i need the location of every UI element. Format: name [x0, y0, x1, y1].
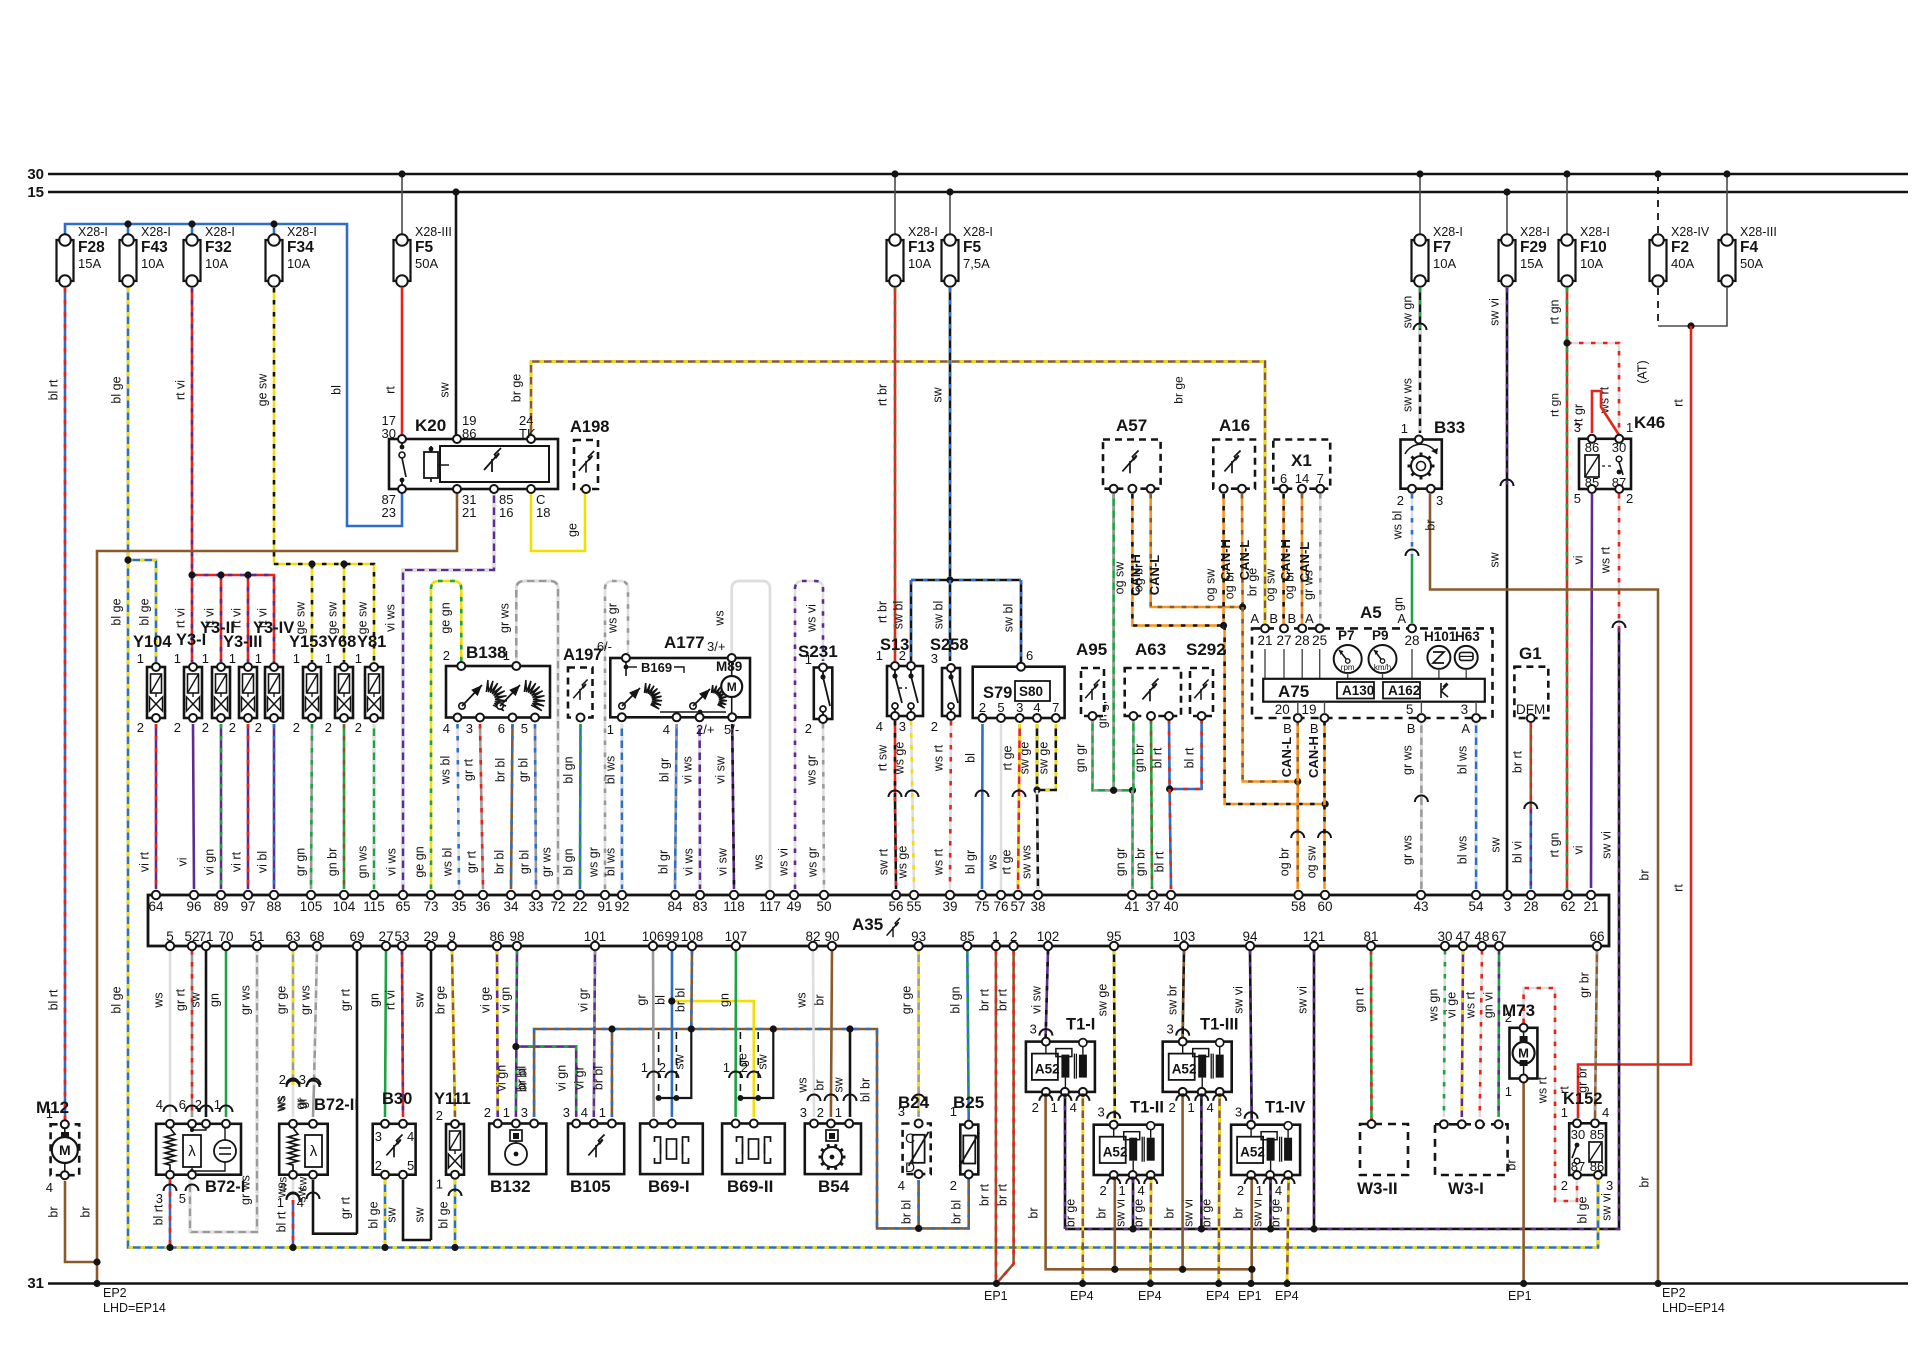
- svg-text:10A: 10A: [141, 256, 164, 271]
- wire vi gn A35-98 to B132-1 and B105-3: [516, 950, 517, 1117]
- svg-text:115: 115: [363, 899, 385, 914]
- svg-text:2: 2: [443, 648, 450, 663]
- wire gr ge A35-93 to B24-3: [917, 950, 920, 1117]
- svg-text:sw: sw: [673, 1053, 687, 1069]
- svg-text:10A: 10A: [205, 256, 228, 271]
- svg-text:1: 1: [503, 1105, 510, 1120]
- svg-text:2: 2: [931, 719, 938, 734]
- svg-text:og br: og br: [1283, 571, 1297, 600]
- svg-text:vi ge: vi ge: [479, 987, 493, 1013]
- svg-text:64: 64: [148, 899, 164, 914]
- svg-text:60: 60: [1317, 899, 1332, 914]
- svg-text:F32: F32: [205, 239, 232, 256]
- svg-text:1: 1: [277, 1195, 284, 1210]
- svg-text:bl rt: bl rt: [1153, 851, 1167, 872]
- fuse F5: [942, 240, 959, 281]
- svg-text:sw vi: sw vi: [1296, 986, 1310, 1014]
- svg-text:14: 14: [1295, 471, 1309, 486]
- svg-text:M: M: [1518, 1046, 1529, 1061]
- svg-text:3: 3: [1606, 1178, 1613, 1193]
- svg-text:bl ge: bl ge: [110, 598, 124, 625]
- svg-text:rt gn: rt gn: [1548, 393, 1562, 417]
- svg-text:4: 4: [581, 1105, 588, 1120]
- svg-text:rt ge: rt ge: [1000, 849, 1014, 874]
- bus 31 ground line: [48, 1282, 1908, 1284]
- svg-text:A52: A52: [1035, 1062, 1060, 1077]
- svg-text:vi gn: vi gn: [555, 1065, 569, 1091]
- svg-text:vi: vi: [1572, 845, 1586, 854]
- relay K20: [389, 439, 558, 489]
- svg-text:1: 1: [1187, 1100, 1194, 1115]
- svg-text:5: 5: [1406, 702, 1414, 717]
- wire vi K46-85 to A35-21: [1591, 494, 1592, 888]
- svg-text:6: 6: [1026, 648, 1033, 663]
- wire gr ws hairpin B138-1 to A35-72: [516, 581, 558, 889]
- svg-text:A57: A57: [1116, 416, 1147, 435]
- wire vi sw A177-5 to A35-118: [732, 724, 734, 889]
- svg-text:gn br: gn br: [1134, 848, 1148, 877]
- svg-text:53: 53: [394, 929, 409, 944]
- svg-text:1: 1: [174, 651, 181, 666]
- wire gn vi A35-67 to W3-I: [1497, 950, 1500, 1117]
- svg-text:85: 85: [1590, 1127, 1604, 1142]
- svg-text:117: 117: [759, 899, 781, 914]
- svg-text:EP4: EP4: [1275, 1289, 1299, 1303]
- svg-text:ws ge: ws ge: [896, 846, 910, 880]
- svg-text:gn vi: gn vi: [1482, 992, 1496, 1018]
- svg-text:gr rt: gr rt: [339, 988, 353, 1011]
- svg-text:3: 3: [1436, 493, 1443, 508]
- wire bl ws A177-1 to A35-92: [620, 724, 623, 889]
- svg-text:72: 72: [550, 899, 565, 914]
- svg-text:A: A: [1250, 611, 1259, 626]
- svg-text:gr ws: gr ws: [540, 847, 554, 877]
- svg-text:bl ge: bl ge: [138, 598, 152, 625]
- svg-text:rt: rt: [1672, 399, 1686, 407]
- svg-text:25: 25: [1312, 633, 1327, 648]
- svg-text:2: 2: [202, 720, 209, 735]
- svg-text:28: 28: [1523, 899, 1538, 914]
- wire gn ws Y81 to A35-115: [373, 724, 376, 889]
- svg-text:LHD=EP14: LHD=EP14: [103, 1301, 166, 1315]
- svg-text:ws: ws: [274, 1096, 288, 1112]
- connector strip A35: [148, 895, 1609, 946]
- svg-text:K20: K20: [415, 416, 446, 435]
- svg-text:62: 62: [1560, 899, 1575, 914]
- svg-text:37: 37: [1145, 899, 1160, 914]
- svg-text:2: 2: [375, 1158, 382, 1173]
- svg-text:ws gn: ws gn: [1427, 989, 1441, 1023]
- svg-text:54: 54: [1468, 899, 1484, 914]
- motor M73: [1510, 1028, 1538, 1079]
- svg-text:28: 28: [1404, 633, 1419, 648]
- svg-text:3: 3: [1166, 1022, 1173, 1037]
- svg-text:X28-I: X28-I: [1520, 225, 1550, 239]
- wire og br CAN-L A57: [1151, 494, 1243, 607]
- svg-text:ws vi: ws vi: [805, 604, 819, 633]
- wire ws gn A35-30 to W3-I: [1444, 950, 1445, 1117]
- svg-text:3: 3: [521, 1105, 528, 1120]
- svg-text:ws vi: ws vi: [777, 848, 791, 877]
- svg-text:1: 1: [137, 651, 144, 666]
- svg-text:W3-II: W3-II: [1357, 1179, 1398, 1198]
- svg-text:ws: ws: [795, 992, 809, 1008]
- svg-text:B72-II: B72-II: [314, 1096, 359, 1114]
- svg-text:br: br: [1424, 519, 1438, 530]
- svg-text:X28-IV: X28-IV: [1671, 225, 1710, 239]
- svg-text:ge gn: ge gn: [439, 602, 453, 633]
- svg-text:B169: B169: [641, 660, 672, 675]
- svg-text:6/-: 6/-: [597, 639, 612, 654]
- svg-text:31: 31: [27, 1275, 44, 1292]
- sensor A197: [568, 668, 593, 718]
- svg-text:B132: B132: [490, 1177, 531, 1196]
- svg-text:EP1: EP1: [1508, 1289, 1532, 1303]
- svg-text:gn ws: gn ws: [356, 846, 370, 879]
- svg-text:Y68: Y68: [327, 633, 356, 651]
- svg-text:ge sw: ge sw: [326, 601, 340, 635]
- svg-text:og sw: og sw: [1113, 561, 1127, 595]
- wire bl A35-99 to B69-I-2: [671, 950, 674, 1117]
- svg-text:106: 106: [642, 929, 665, 944]
- ignition coil T1-II: [1094, 1125, 1163, 1175]
- wire br ge K20-TK to A5-21: [531, 362, 1265, 624]
- svg-text:3: 3: [1504, 899, 1512, 914]
- svg-text:6: 6: [498, 721, 505, 736]
- svg-text:br ge: br ge: [1132, 1199, 1146, 1228]
- svg-text:23: 23: [382, 505, 396, 520]
- svg-text:50A: 50A: [1740, 256, 1763, 271]
- svg-text:vi gn: vi gn: [495, 1065, 509, 1091]
- svg-text:Y111: Y111: [434, 1090, 471, 1108]
- svg-text:1: 1: [436, 1177, 443, 1192]
- svg-text:15A: 15A: [1520, 256, 1543, 271]
- svg-text:104: 104: [333, 899, 356, 914]
- svg-text:F13: F13: [908, 239, 935, 256]
- svg-text:sw bl: sw bl: [932, 601, 946, 629]
- wire gn A35-70 to B72-I-1: [225, 950, 228, 1117]
- svg-text:ws: ws: [276, 1177, 290, 1193]
- svg-text:7: 7: [1052, 700, 1059, 715]
- module A57: [1103, 440, 1161, 489]
- svg-text:vi gn: vi gn: [499, 987, 513, 1013]
- svg-text:3: 3: [375, 1129, 382, 1144]
- wire br rt A35-2 to EP1: [996, 950, 1013, 1284]
- svg-text:5/-: 5/-: [724, 722, 739, 737]
- svg-text:B33: B33: [1434, 418, 1465, 437]
- svg-text:rt sw: rt sw: [876, 744, 890, 771]
- svg-text:br: br: [1638, 869, 1652, 880]
- svg-text:B72-I: B72-I: [205, 1178, 245, 1196]
- wire br T1 pin2 collector to EP1: [1046, 1094, 1252, 1284]
- svg-text:br: br: [79, 1206, 93, 1217]
- svg-text:30: 30: [27, 166, 44, 183]
- svg-text:63: 63: [285, 929, 300, 944]
- wire br M12-4 to bus31: [65, 1181, 97, 1262]
- svg-text:K152: K152: [1563, 1090, 1602, 1108]
- wire rt ge S79-3 to A35-57: [1018, 724, 1020, 889]
- svg-text:W3-I: W3-I: [1448, 1179, 1484, 1198]
- svg-text:86: 86: [489, 929, 504, 944]
- svg-text:ge sw: ge sw: [356, 601, 370, 635]
- throttle body B138: [446, 666, 550, 718]
- svg-text:sw: sw: [1488, 551, 1502, 567]
- fuse F4: [1719, 240, 1736, 281]
- svg-text:vi ge: vi ge: [1445, 992, 1459, 1018]
- wire bl ge Y111-1 to ground bus: [454, 1180, 457, 1248]
- wire F29 top to bus 15: [1506, 192, 1508, 234]
- svg-text:30: 30: [382, 426, 396, 441]
- svg-text:bl gr: bl gr: [657, 850, 671, 874]
- ignition coil T1-III: [1163, 1042, 1232, 1092]
- svg-text:bl gn: bl gn: [949, 986, 963, 1013]
- svg-text:vi: vi: [176, 857, 190, 866]
- svg-text:br: br: [1232, 1207, 1246, 1218]
- wire br M73-1 to EP1: [1522, 1081, 1525, 1284]
- svg-text:Y104: Y104: [133, 633, 172, 651]
- fuse F7: [1412, 240, 1429, 281]
- instrument module A75: [1263, 679, 1485, 702]
- wire bl gn A197 to A35-22: [579, 724, 582, 889]
- svg-text:5: 5: [179, 1191, 186, 1206]
- fuse F13: [887, 240, 904, 281]
- valve Y3-III: [239, 667, 257, 718]
- svg-text:H101: H101: [1424, 629, 1457, 644]
- svg-text:2: 2: [325, 720, 332, 735]
- wire og br CAN-L A16: [1241, 494, 1244, 607]
- wire br A35-90 to B54-2: [831, 950, 832, 1117]
- svg-text:CAN-L: CAN-L: [1279, 737, 1294, 777]
- gauge P9: [1369, 645, 1397, 673]
- valve Y104: [147, 667, 165, 718]
- sensor B30: [373, 1124, 416, 1175]
- motor M12: [51, 1124, 80, 1175]
- svg-text:5: 5: [166, 929, 174, 944]
- svg-text:rt vi: rt vi: [174, 608, 188, 628]
- svg-text:21: 21: [1583, 899, 1598, 914]
- svg-text:vi sw: vi sw: [1030, 985, 1044, 1014]
- wire ge branch to B69-II-2: [672, 1001, 754, 1117]
- svg-text:A52: A52: [1172, 1062, 1197, 1077]
- wire vi rt Y3-III to A35-97: [247, 724, 250, 889]
- svg-text:EP4: EP4: [1138, 1289, 1162, 1303]
- wire ws gr S231-2 to A35-50: [823, 724, 824, 889]
- svg-text:br bl: br bl: [494, 758, 508, 782]
- svg-text:A75: A75: [1278, 682, 1309, 701]
- ignition coil T1-IV: [1231, 1125, 1300, 1175]
- svg-text:br ge: br ge: [434, 986, 448, 1015]
- svg-text:58: 58: [1291, 899, 1306, 914]
- svg-text:2: 2: [741, 1060, 748, 1075]
- svg-text:B: B: [1407, 721, 1416, 736]
- svg-text:2: 2: [195, 1097, 202, 1112]
- svg-text:vi ws: vi ws: [385, 848, 399, 876]
- svg-text:λ: λ: [188, 1143, 196, 1160]
- svg-text:A130: A130: [1342, 683, 1374, 698]
- svg-text:3/+: 3/+: [707, 639, 725, 654]
- svg-text:gn: gn: [368, 993, 382, 1007]
- svg-text:1: 1: [1256, 1183, 1263, 1198]
- svg-text:G1: G1: [1519, 644, 1542, 663]
- fuse F34: [266, 240, 283, 281]
- svg-text:18: 18: [536, 505, 550, 520]
- wire ge K20-C/18 to A198: [531, 491, 585, 551]
- svg-text:br rt: br rt: [996, 988, 1010, 1011]
- svg-text:4: 4: [1206, 1100, 1213, 1115]
- svg-text:Y81: Y81: [357, 633, 386, 651]
- switch S13: [887, 666, 923, 716]
- svg-text:bl br: bl br: [859, 1078, 873, 1102]
- svg-text:39: 39: [942, 899, 957, 914]
- wire gn A35-107 to B69-II-1: [734, 950, 737, 1117]
- svg-text:vi gr: vi gr: [573, 1066, 587, 1090]
- svg-text:gr ws: gr ws: [1302, 570, 1316, 600]
- svg-text:B69-I: B69-I: [648, 1177, 690, 1196]
- sensor A63: [1125, 668, 1181, 716]
- wire vi bl Y3-IV to A35-88: [273, 724, 276, 889]
- svg-text:bl rt: bl rt: [152, 1204, 166, 1225]
- wire F4 top to bus 30: [1726, 174, 1728, 234]
- rotary sensor B33: [1401, 440, 1442, 489]
- temperature sensor B24: [903, 1124, 931, 1175]
- svg-text:ws rt: ws rt: [1464, 991, 1478, 1019]
- wire F2 top to bus 30 (dashed): [1657, 174, 1659, 234]
- svg-text:1: 1: [1626, 420, 1633, 435]
- svg-text:gr ws: gr ws: [299, 985, 313, 1015]
- svg-text:EP2: EP2: [1662, 1286, 1686, 1300]
- svg-text:43: 43: [1413, 899, 1428, 914]
- svg-text:ws bl: ws bl: [1391, 511, 1405, 540]
- svg-text:br rt: br rt: [996, 1183, 1010, 1206]
- svg-text:1: 1: [355, 651, 362, 666]
- svg-text:CAN-H: CAN-H: [1306, 736, 1321, 778]
- svg-text:bl ws: bl ws: [604, 848, 618, 876]
- svg-text:69: 69: [349, 929, 364, 944]
- svg-text:22: 22: [572, 899, 587, 914]
- svg-text:105: 105: [300, 899, 323, 914]
- wire gn br A63-2 to A35-37: [1151, 719, 1152, 889]
- ground bus junction dots bus31: [93, 1280, 100, 1287]
- svg-text:ws bl: ws bl: [441, 848, 455, 877]
- svg-text:rt gn: rt gn: [1548, 299, 1562, 324]
- svg-text:br bl: br bl: [950, 1200, 964, 1224]
- svg-text:2: 2: [1561, 1178, 1568, 1193]
- wire og br X1-14 to A5-28: [1301, 494, 1304, 623]
- svg-text:107: 107: [725, 929, 748, 944]
- wire ws rt M73-2 to K152-2: [1524, 988, 1577, 1201]
- svg-text:S13: S13: [880, 636, 909, 654]
- wire F5 top to bus 30: [401, 174, 403, 234]
- wire br bl shield bus B132-3 to B25-2: [534, 1029, 969, 1228]
- wire rt gn F10 to A35-62: [1566, 288, 1569, 890]
- wire F10 top to bus 30: [1566, 174, 1568, 234]
- svg-text:1: 1: [805, 652, 812, 667]
- svg-text:ws gr: ws gr: [806, 847, 820, 878]
- wire gn gr A95 to A35-41: [1093, 719, 1133, 790]
- svg-text:gr bl: gr bl: [517, 758, 531, 782]
- svg-text:bl: bl: [964, 753, 978, 763]
- svg-text:2: 2: [1505, 1010, 1512, 1025]
- svg-text:gr ge: gr ge: [900, 986, 914, 1015]
- svg-text:57: 57: [1010, 899, 1025, 914]
- svg-text:ge sw: ge sw: [294, 601, 308, 635]
- svg-text:P7: P7: [1338, 628, 1355, 643]
- svg-text:EP2: EP2: [103, 1286, 127, 1300]
- svg-text:51: 51: [249, 929, 264, 944]
- svg-text:40A: 40A: [1671, 256, 1694, 271]
- svg-text:H63: H63: [1455, 629, 1480, 644]
- svg-text:F29: F29: [1520, 239, 1547, 256]
- svg-text:93: 93: [911, 929, 926, 944]
- svg-text:F2: F2: [1671, 239, 1689, 256]
- svg-text:br bl: br bl: [516, 1068, 530, 1092]
- svg-text:ws rt: ws rt: [1536, 1076, 1550, 1104]
- svg-text:91: 91: [597, 899, 612, 914]
- svg-text:X28-I: X28-I: [205, 225, 235, 239]
- svg-text:X28-I: X28-I: [287, 225, 317, 239]
- wire br bl branch B24-4: [917, 1180, 920, 1228]
- wire sw bl F5-II to S13/S258/S79: [949, 288, 952, 580]
- svg-text:48: 48: [1474, 929, 1489, 944]
- fuse F2: [1650, 240, 1667, 281]
- svg-text:rt vi: rt vi: [384, 990, 398, 1010]
- svg-text:sw rt: sw rt: [877, 848, 891, 875]
- svg-text:F4: F4: [1740, 239, 1758, 256]
- svg-text:B54: B54: [818, 1177, 850, 1196]
- svg-text:rt gn: rt gn: [1548, 832, 1562, 857]
- svg-text:75: 75: [974, 899, 989, 914]
- svg-text:sw bl: sw bl: [892, 601, 906, 629]
- svg-text:sw ge: sw ge: [1018, 742, 1032, 775]
- svg-text:2: 2: [659, 1060, 666, 1075]
- svg-text:F34: F34: [287, 239, 314, 256]
- svg-text:F43: F43: [141, 239, 168, 256]
- svg-text:bl rt: bl rt: [47, 379, 61, 400]
- svg-text:gr: gr: [294, 1098, 308, 1109]
- knock sensor B69-I: [640, 1124, 703, 1175]
- svg-text:λ: λ: [310, 1143, 318, 1160]
- svg-text:X28-I: X28-I: [963, 225, 993, 239]
- svg-text:bl rt: bl rt: [1183, 747, 1197, 768]
- wire br bl branch to B105-1: [611, 1029, 614, 1117]
- svg-text:gr rt: gr rt: [465, 850, 479, 873]
- svg-text:85: 85: [960, 929, 975, 944]
- wire sw shield bus to B54-1: [849, 1029, 852, 1117]
- svg-text:92: 92: [614, 899, 629, 914]
- svg-text:og br: og br: [1223, 571, 1237, 600]
- svg-text:B69-II: B69-II: [727, 1177, 773, 1196]
- wire vi ge A35-86 to B132-2: [496, 950, 499, 1117]
- relay K152: [1569, 1123, 1606, 1175]
- svg-text:4: 4: [1275, 1183, 1282, 1198]
- svg-text:gn: gn: [1392, 597, 1406, 611]
- svg-text:sw: sw: [832, 1076, 846, 1092]
- svg-text:P9: P9: [1372, 628, 1389, 643]
- svg-text:K46: K46: [1634, 413, 1665, 432]
- wire br rt / bl vi G1 to A35-28: [1530, 723, 1533, 809]
- svg-text:M: M: [59, 1142, 71, 1158]
- B69-I shield: [658, 1032, 660, 1098]
- lambda sensor B72-II: [279, 1124, 328, 1175]
- svg-text:F28: F28: [78, 239, 105, 256]
- wire sw ge A35-95 to T1-II-3: [1113, 950, 1116, 1121]
- wire bl gr A177-4 to A35-84: [675, 724, 677, 889]
- wire sw vi / sw F29 to A35-3: [1506, 288, 1509, 486]
- svg-text:sw: sw: [756, 1053, 770, 1069]
- svg-text:CAN-L: CAN-L: [1147, 555, 1162, 595]
- svg-text:ws: ws: [986, 854, 1000, 870]
- svg-text:88: 88: [266, 899, 281, 914]
